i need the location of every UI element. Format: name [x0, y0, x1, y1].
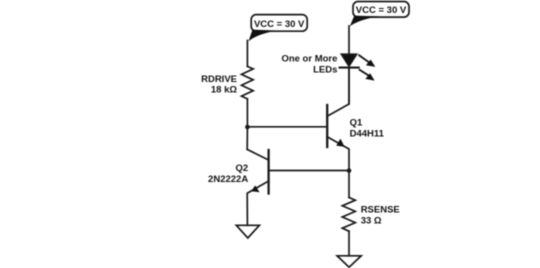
callout wedge right — [350, 16, 380, 27]
node B junction dot — [347, 168, 352, 173]
resistor RSENSE — [342, 197, 355, 231]
LED cathode bar — [340, 67, 359, 69]
svg-text:2N2222A: 2N2222A — [208, 174, 248, 185]
Q1 emitter arrowhead — [336, 139, 344, 147]
wire RDRIVE to node A — [246, 99, 248, 127]
LED light arrow 2 — [360, 70, 369, 76]
wire LED to Q1 collector — [348, 68, 350, 104]
node A junction dot — [245, 125, 250, 130]
Q2 emitter arrowhead — [251, 185, 259, 192]
Q2 emitter lead — [247, 181, 268, 225]
Q2 collector lead — [247, 149, 268, 160]
wire VCC-right to LED — [348, 26, 350, 54]
svg-text:RSENSE: RSENSE — [361, 205, 400, 216]
wire node A to Q1 base — [247, 126, 327, 128]
VCC label box right — [353, 2, 409, 18]
ground symbol left — [236, 225, 259, 238]
ground symbol right — [337, 256, 361, 267]
transistor Q2 base bar — [267, 150, 269, 194]
svg-text:VCC = 30 V: VCC = 30 V — [356, 5, 407, 16]
svg-text:One or More: One or More — [281, 54, 337, 65]
svg-text:D44H11: D44H11 — [350, 129, 385, 140]
Q1 emitter lead — [327, 137, 349, 171]
svg-text:VCC = 30 V: VCC = 30 V — [254, 19, 305, 30]
Q2 base wire to node B — [269, 170, 349, 172]
svg-text:18 kΩ: 18 kΩ — [211, 85, 237, 96]
svg-text:Q2: Q2 — [236, 163, 249, 174]
LED light arrow 1 — [359, 55, 369, 62]
transistor Q1 base bar — [326, 105, 328, 147]
wire node A down to Q2 collector bend — [246, 127, 248, 149]
wire node B to RSENSE — [348, 171, 350, 198]
resistor RDRIVE — [242, 66, 254, 99]
Q1 collector lead — [327, 68, 349, 117]
svg-text:Q1: Q1 — [350, 118, 363, 129]
LED D1 diode triangle — [341, 54, 356, 66]
VCC label box left — [251, 15, 307, 32]
wire RSENSE to ground — [348, 231, 350, 256]
svg-text:RDRIVE: RDRIVE — [201, 74, 237, 85]
svg-text:LEDs: LEDs — [313, 64, 337, 75]
callout wedge left — [249, 30, 279, 42]
wire VCC-left to RDRIVE — [246, 41, 248, 67]
svg-text:33 Ω: 33 Ω — [361, 215, 382, 226]
